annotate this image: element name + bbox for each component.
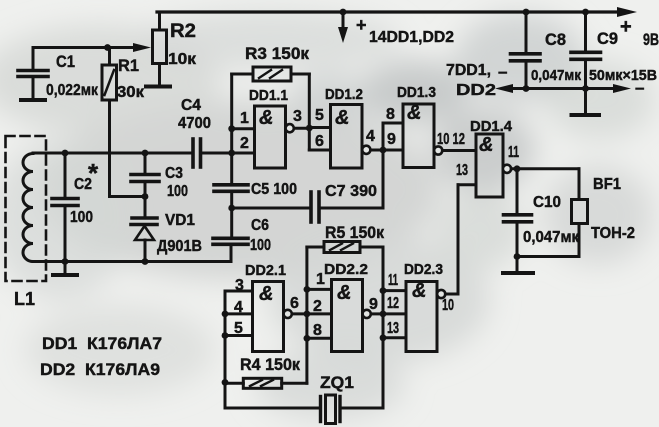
node: C8 on minus rail xyxy=(523,85,530,92)
svg-text:8: 8 xyxy=(313,322,322,339)
svg-text:R1: R1 xyxy=(118,56,139,75)
svg-text:+: + xyxy=(356,15,367,35)
resistor R3 xyxy=(232,67,310,128)
svg-text:0,047мк: 0,047мк xyxy=(531,67,581,84)
wire: DD2.3 input bracket / crystal vertical xyxy=(382,247,385,408)
svg-text:6: 6 xyxy=(290,295,299,312)
svg-text:30к: 30к xyxy=(117,84,145,101)
wire: node row to C7 xyxy=(232,207,311,210)
svg-text:DD2 К176ЛА9: DD2 К176ЛА9 xyxy=(40,360,160,379)
svg-text:C9: C9 xyxy=(597,29,618,48)
svg-text:10 12: 10 12 xyxy=(437,131,465,148)
gate DD1.4 xyxy=(458,134,579,197)
svg-text:ZQ1: ZQ1 xyxy=(320,373,354,392)
svg-text:C10: C10 xyxy=(533,194,561,211)
node: C10 bottom junction xyxy=(514,253,521,260)
wire: tank bottom rail xyxy=(33,260,231,263)
node: pin2/DD2.1 out xyxy=(304,311,311,318)
svg-text:DD1.4: DD1.4 xyxy=(470,118,513,135)
svg-text:+: + xyxy=(620,16,632,38)
node: R4 left xyxy=(222,379,229,386)
ground: bar under C9 xyxy=(572,113,600,117)
wire: DD2.1 input bracket and stubs xyxy=(225,291,253,407)
svg-text:VD1: VD1 xyxy=(165,212,195,229)
capacitor C3 xyxy=(131,153,159,197)
svg-text:DD2.3: DD2.3 xyxy=(404,261,443,278)
ground: bar under C1 xyxy=(21,98,45,102)
svg-text:DD1.1: DD1.1 xyxy=(249,87,288,104)
node: C3 top xyxy=(142,150,149,157)
svg-text:–: – xyxy=(498,62,507,81)
svg-text:11: 11 xyxy=(388,272,398,289)
gate DD1.3 xyxy=(403,104,476,168)
svg-text:DD2.1: DD2.1 xyxy=(245,262,286,279)
speaker BF1 xyxy=(517,169,588,257)
svg-text:&: & xyxy=(259,107,273,129)
svg-text:9В: 9В xyxy=(643,30,659,49)
svg-text:13: 13 xyxy=(387,320,399,337)
node: pin5 xyxy=(222,332,229,339)
node: pin11/R5 xyxy=(380,287,387,294)
svg-text:*: * xyxy=(88,158,99,188)
gate DD2.3 xyxy=(383,282,458,352)
svg-text:&: & xyxy=(479,134,493,156)
svg-text:&: & xyxy=(259,283,273,305)
svg-text:C6: C6 xyxy=(251,217,269,234)
inductor L1 dashed screen box xyxy=(6,136,47,281)
svg-text:DD1.3: DD1.3 xyxy=(397,84,436,101)
capacitor C7 xyxy=(311,192,319,222)
node: pin8 xyxy=(304,335,311,342)
capacitor C6 xyxy=(213,208,248,262)
wire: DD1.2 input stubs xyxy=(309,128,330,151)
svg-text:R2: R2 xyxy=(170,21,196,42)
svg-text:50мк×15В: 50мк×15В xyxy=(589,67,657,84)
svg-text:8: 8 xyxy=(386,106,395,123)
svg-text:4700: 4700 xyxy=(178,115,211,132)
svg-text:12: 12 xyxy=(387,295,399,312)
svg-text:6: 6 xyxy=(315,133,324,150)
resistor R1 (trimmer) xyxy=(102,48,145,197)
svg-text:4: 4 xyxy=(234,299,243,316)
node: C9 on minus rail xyxy=(582,85,589,92)
capacitor C1 xyxy=(18,48,48,100)
svg-text:C7 390: C7 390 xyxy=(325,183,377,200)
svg-text:11: 11 xyxy=(508,144,519,161)
node: C5/C6/C7 node xyxy=(228,205,235,212)
svg-text:R5 150к: R5 150к xyxy=(325,223,384,242)
node: R1 lower junction with C3/VD1 xyxy=(142,193,149,200)
wire: input node vertical (R3 left to C5) xyxy=(230,74,233,185)
wire: DD2.2 input bracket vertical xyxy=(305,247,308,383)
node: pin12/DD2.2 out xyxy=(380,311,387,318)
svg-text:DD1 К176ЛА7: DD1 К176ЛА7 xyxy=(42,334,162,353)
svg-text:0,022мк: 0,022мк xyxy=(46,82,99,99)
svg-text:4: 4 xyxy=(366,128,375,145)
svg-text:R3 150к: R3 150к xyxy=(245,44,309,63)
capacitor C9 xyxy=(571,12,601,115)
node: DD1.1 input node (after C4) xyxy=(228,150,235,157)
capacitor C8 xyxy=(511,12,541,89)
svg-text:DD2.2: DD2.2 xyxy=(324,261,368,278)
svg-text:5: 5 xyxy=(234,320,243,337)
svg-text:3: 3 xyxy=(235,277,244,294)
svg-text:7DD1,: 7DD1, xyxy=(446,62,491,79)
svg-text:100: 100 xyxy=(167,183,188,200)
svg-text:&: & xyxy=(335,107,349,129)
svg-text:10: 10 xyxy=(442,297,454,314)
svg-text:DD1.2: DD1.2 xyxy=(325,86,363,103)
svg-text:1: 1 xyxy=(316,271,325,288)
capacitor C5 xyxy=(214,185,248,208)
node: DD1.1 output junction xyxy=(306,125,313,132)
node: pin4 xyxy=(222,311,229,318)
svg-text:3: 3 xyxy=(293,108,302,125)
inductor L1 coil xyxy=(23,154,33,262)
node: top rail junction at C9 xyxy=(582,9,589,16)
node: VD1 bottom xyxy=(142,258,149,265)
resistor R2 xyxy=(153,12,167,86)
svg-text:C3: C3 xyxy=(165,165,183,182)
svg-text:L1: L1 xyxy=(14,289,35,309)
wire: minus rail double arrow (pin 7) xyxy=(495,84,631,93)
svg-text:DD2: DD2 xyxy=(456,82,496,99)
svg-text:&: & xyxy=(407,102,421,124)
ground: bar under C10 xyxy=(503,271,533,275)
gate DD1.2 xyxy=(331,105,404,169)
wire: tank top node row xyxy=(33,152,193,155)
svg-text:9: 9 xyxy=(387,131,396,148)
svg-text:R4 150к: R4 150к xyxy=(240,355,300,374)
svg-text:2: 2 xyxy=(240,135,249,152)
node: pin1 xyxy=(304,286,311,293)
svg-text:&: & xyxy=(337,282,351,304)
node: DD1.2 output junction xyxy=(380,147,387,154)
node: L1/C2 top xyxy=(62,150,69,157)
svg-text:C4: C4 xyxy=(181,97,201,114)
svg-text:&: & xyxy=(412,280,426,302)
wire: C1/R1 node to R2 wiper arrow xyxy=(33,43,151,52)
svg-text:14DD1,DD2: 14DD1,DD2 xyxy=(369,29,454,46)
wire: supply pin-14 arrow xyxy=(338,12,348,43)
svg-text:C8: C8 xyxy=(545,30,566,49)
svg-text:9: 9 xyxy=(369,296,378,313)
svg-text:2: 2 xyxy=(313,298,322,315)
svg-text:BF1: BF1 xyxy=(593,176,621,193)
svg-text:100: 100 xyxy=(70,209,93,226)
resistor R4 xyxy=(225,378,307,388)
capacitor C2 xyxy=(52,153,78,262)
ground: bar under R2 xyxy=(146,85,170,89)
capacitor C10 xyxy=(504,169,532,273)
svg-text:–: – xyxy=(635,78,644,97)
gate DD2.2 xyxy=(307,280,383,352)
node: pin13/ZQ1 xyxy=(380,334,387,341)
svg-text:C1: C1 xyxy=(56,52,75,71)
svg-text:100: 100 xyxy=(250,237,271,254)
node: pin1 junction xyxy=(228,125,235,132)
capacitor C4 xyxy=(193,139,255,167)
wire: DD1.3 pin8 stub and bracket down to C7 xyxy=(320,123,404,208)
svg-text:1: 1 xyxy=(240,110,249,127)
svg-text:13: 13 xyxy=(456,162,468,179)
svg-text:10к: 10к xyxy=(168,51,197,68)
node: junction C1/R1 top xyxy=(104,44,111,51)
op-amp gate DD1.1 xyxy=(232,106,310,168)
ground: bar under bottom rail xyxy=(53,262,77,276)
wire: DD1.4 pin13 down to DD2.3 output xyxy=(457,185,460,294)
varicap VD1 xyxy=(131,197,157,262)
svg-text:C5 100: C5 100 xyxy=(251,181,297,198)
svg-text:Д901В: Д901В xyxy=(157,238,202,255)
node: DD1.4 output junction xyxy=(514,165,521,172)
wire: +9V top rail xyxy=(157,7,637,17)
svg-text:ТОН-2: ТОН-2 xyxy=(591,225,635,242)
node: top rail junction at supply arrow xyxy=(340,9,347,16)
resistor R5 xyxy=(307,242,383,253)
crystal ZQ1 xyxy=(225,395,383,424)
gate DD2.1 xyxy=(253,282,307,352)
node: C2 bottom / ground xyxy=(62,258,69,265)
svg-text:5: 5 xyxy=(315,107,324,124)
node: top rail junction at C8 xyxy=(523,9,530,16)
svg-text:0,047мк: 0,047мк xyxy=(523,229,580,246)
